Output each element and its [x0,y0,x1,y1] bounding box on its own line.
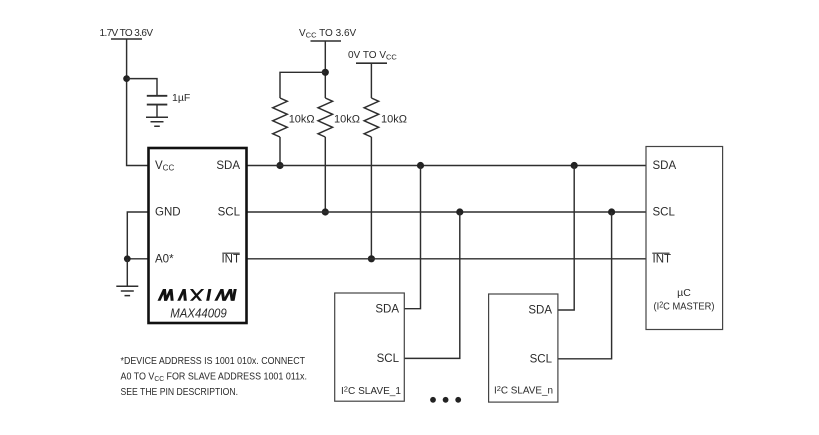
I2C slave 1 body [335,293,405,401]
svg-text:VCC TO 3.6V: VCC TO 3.6V [299,28,356,39]
wire slave1 SDA [404,166,420,309]
svg-text:VCC: VCC [155,160,174,173]
microcontroller U2 body [646,147,723,330]
supply rail 1.7V TO 3.6V bar [111,38,142,40]
node GND/A0 junction [124,255,131,262]
wire A0 pin [127,258,148,260]
wire slave_n SDA [558,166,574,311]
overline INT (U1) [222,252,239,254]
svg-text:µC: µC [677,287,691,299]
wire R2 to SCL [324,137,326,212]
wire pullup supply [324,41,326,98]
svg-text:SCL: SCL [218,207,241,219]
resistor R3 10k [364,98,379,137]
overline INT (uC) [652,252,669,254]
supply rail VCC TO 3.6V bar [311,40,342,42]
wire slave1 SCL [404,212,460,358]
svg-text:SDA: SDA [375,303,399,315]
svg-text:SCL: SCL [530,353,553,365]
svg-text:A0 TO VCC FOR SLAVE ADDRESS 10: A0 TO VCC FOR SLAVE ADDRESS 1001 011x. [121,372,308,383]
ellipsis between slaves [430,397,436,403]
Maxim logo [158,289,237,301]
resistor R1 10k [273,98,288,137]
svg-text:SCL: SCL [653,207,676,219]
wire branch to R1 [280,72,325,98]
svg-text:INT: INT [653,254,672,266]
wire cap branch [127,79,157,96]
svg-text:GND: GND [155,207,181,219]
svg-text:SDA: SDA [528,305,552,317]
svg-text:MAX44009: MAX44009 [170,306,227,321]
wire slave_n SCL [558,212,612,359]
svg-text:I2C SLAVE_n: I2C SLAVE_n [494,384,553,397]
node R3/INT [368,255,375,262]
resistor R2 10k [318,98,333,137]
ground (cap) [146,117,168,126]
wire R3 to INT [370,137,372,259]
node R1/SDA [276,162,283,169]
svg-text:10kΩ: 10kΩ [334,114,360,126]
supply rail 0V TO VCC bar [356,62,387,64]
node SDA/slave1 [417,162,424,169]
svg-text:1.7V TO 3.6V: 1.7V TO 3.6V [100,28,154,39]
capacitor C1 1uF [147,96,168,105]
wire R1 to SDA [279,137,281,166]
svg-text:0V TO VCC: 0V TO VCC [348,50,397,61]
ground (A0/GND) [116,286,138,295]
wire SDA bus [247,165,647,167]
node SCL/slave_n [608,208,615,215]
I2C slave n body [489,294,558,402]
svg-text:10kΩ: 10kΩ [381,114,407,126]
svg-text:INT: INT [221,254,240,266]
svg-text:I2C SLAVE_1: I2C SLAVE_1 [341,384,401,397]
svg-text:10kΩ: 10kΩ [289,114,315,126]
svg-text:SCL: SCL [377,353,400,365]
wire to ground [126,259,128,286]
node R2/SCL [322,208,329,215]
IC U1 MAX44009 body [149,148,247,323]
wire INT pullup supply [370,63,372,98]
node SDA/slave_n [571,162,578,169]
node SCL/slave1 [456,208,463,215]
svg-text:1µF: 1µF [172,92,190,104]
svg-text:SDA: SDA [216,160,240,172]
wire SCL bus [247,211,647,213]
node pullup supply junction [322,69,329,76]
wire INT bus [247,258,647,260]
svg-text:SEE THE PIN DESCRIPTION.: SEE THE PIN DESCRIPTION. [121,387,239,398]
svg-text:A0*: A0* [155,254,174,266]
wire VCC supply down to VCC pin [127,39,149,166]
svg-text:*DEVICE ADDRESS IS 1001 010x.: *DEVICE ADDRESS IS 1001 010x. CONNECT [121,356,306,367]
svg-text:(I2C MASTER): (I2C MASTER) [654,301,715,313]
node junction supply/cap [123,75,130,82]
svg-text:SDA: SDA [653,160,677,172]
wire cap to ground [156,105,158,117]
wire GND pin [127,212,148,259]
